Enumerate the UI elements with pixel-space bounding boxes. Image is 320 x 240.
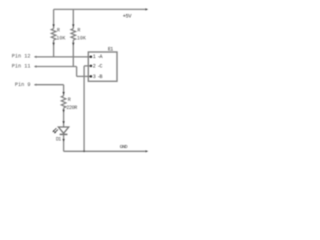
arrow Pin 9 wire start xyxy=(34,84,37,86)
resistor R1 zigzag xyxy=(51,29,56,40)
arrow Pin 12 wire start xyxy=(34,56,37,58)
wire R3 bottom xyxy=(63,108,65,127)
arrow LED bottom terminal xyxy=(62,139,64,142)
ground GND arrow xyxy=(145,150,148,152)
arrow R1 top terminal xyxy=(52,24,54,27)
wire R2 top xyxy=(72,9,74,28)
arrow LED top terminal xyxy=(62,121,64,124)
LED D1 xyxy=(53,121,69,151)
arrow R3 bottom terminal xyxy=(62,110,64,113)
resistor R3 xyxy=(61,92,77,127)
svg-text:220R: 220R xyxy=(66,105,77,111)
resistor R3 zigzag xyxy=(61,96,66,108)
wire Pin 11 vertical jog xyxy=(76,67,78,77)
svg-text:+5V: +5V xyxy=(123,13,133,19)
svg-text:1 -A: 1 -A xyxy=(93,54,103,60)
svg-text:Pin 9: Pin 9 xyxy=(15,82,31,88)
wire +5V rail xyxy=(54,8,146,10)
wire R2 bottom to Pin 11 net (crosses Pin 12 net) xyxy=(72,40,74,67)
LED cathode bar xyxy=(60,133,68,135)
arrow R1 bottom terminal xyxy=(52,43,54,46)
wire Pin 9 down to resistor R3 xyxy=(63,85,65,96)
svg-text:Pin 11: Pin 11 xyxy=(12,64,31,70)
svg-text:10K: 10K xyxy=(77,36,86,42)
arrow Pin 11 wire start xyxy=(34,65,37,67)
wire R1 top xyxy=(53,9,55,28)
wire encoder pin 2 to ground rail xyxy=(83,66,85,151)
wire LED bottom xyxy=(63,134,65,151)
LED emission arrow 1 xyxy=(55,130,58,133)
wire GND rail xyxy=(64,150,146,152)
svg-text:R: R xyxy=(57,27,60,33)
arrow R2 bottom terminal xyxy=(72,43,74,46)
resistor R2 xyxy=(71,9,86,66)
wire Pin 11 to encoder pin 3 xyxy=(77,75,91,77)
resistor R2 zigzag xyxy=(71,29,76,40)
arrow R3 top terminal xyxy=(62,92,64,95)
wire R1 bottom xyxy=(53,40,55,57)
wire Pin 9 horizontal xyxy=(35,84,64,86)
power +5V arrow xyxy=(145,8,148,10)
svg-text:10K: 10K xyxy=(56,36,65,42)
svg-text:GND: GND xyxy=(120,144,128,150)
arrow R2 top terminal xyxy=(72,24,74,27)
svg-text:D1: D1 xyxy=(56,137,61,143)
svg-text:R: R xyxy=(77,27,80,33)
encoder E1 body xyxy=(88,52,117,81)
wire Pin 12 to encoder pin 1 xyxy=(35,56,91,58)
junction dot encoder pin 2 xyxy=(90,65,93,68)
junction dot encoder pin 1 xyxy=(90,56,93,59)
svg-text:E1: E1 xyxy=(108,47,113,53)
resistor R1 xyxy=(51,9,65,57)
svg-text:R: R xyxy=(68,97,71,103)
junction dot GND rail with pin 2 wire xyxy=(83,150,85,152)
svg-text:Pin 12: Pin 12 xyxy=(12,54,31,60)
wire encoder pin 2 stub xyxy=(84,65,90,67)
LED emission arrow 2 xyxy=(54,128,57,131)
junction dot encoder pin 3 xyxy=(90,75,93,78)
svg-text:3 -B: 3 -B xyxy=(93,74,103,80)
LED triangle xyxy=(58,127,68,133)
wire Pin 11 horizontal xyxy=(35,66,77,68)
svg-text:2 -C: 2 -C xyxy=(93,64,103,70)
